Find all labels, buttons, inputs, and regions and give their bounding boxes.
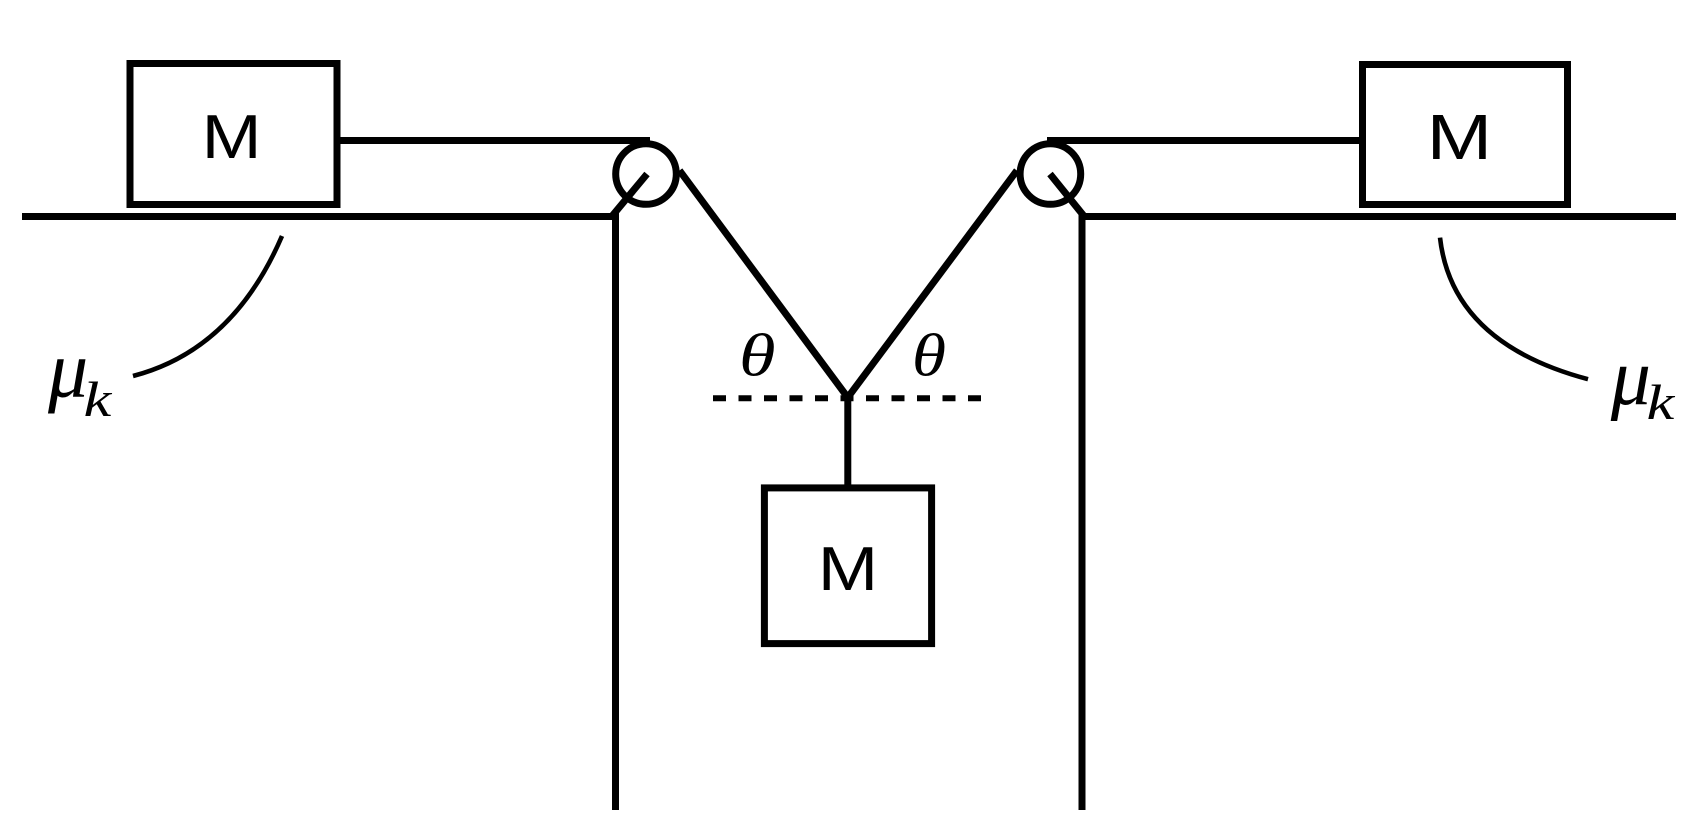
label mu_k right: k subscript [1647,376,1676,431]
rope right horizontal [1047,137,1362,144]
label M hanging [818,535,878,604]
rope left diagonal [680,171,848,397]
svg-text:M: M [1427,102,1493,173]
svg-text:k: k [1647,376,1676,431]
pulley axle right [1050,174,1084,216]
leader curve left [133,236,282,376]
table edge wall left [612,213,619,810]
block M right [1363,65,1568,205]
pulley right [1020,144,1081,205]
table surface right [1079,213,1677,220]
pulley axle left [613,174,648,216]
svg-text:θ: θ [739,322,776,389]
block M left [130,64,337,205]
svg-text:M: M [202,103,262,172]
angle label theta right [912,323,946,389]
table surface left [22,213,619,220]
rope vertical to hanging block [844,393,851,490]
angle label theta left [739,322,776,389]
hanging block M [764,488,931,644]
table edge wall right [1079,213,1086,810]
label M left [202,103,262,172]
svg-text:k: k [84,373,113,428]
label M right [1427,102,1493,173]
svg-text:μ: μ [1610,334,1651,422]
svg-text:μ: μ [47,327,88,415]
leader curve right [1440,238,1588,380]
rope left horizontal [337,137,650,144]
rope right diagonal [849,171,1017,397]
pulley left [616,144,677,205]
dashed reference line [713,395,982,401]
svg-text:M: M [818,535,878,604]
svg-text:θ: θ [912,323,946,389]
label mu_k left: k subscript [84,373,113,428]
